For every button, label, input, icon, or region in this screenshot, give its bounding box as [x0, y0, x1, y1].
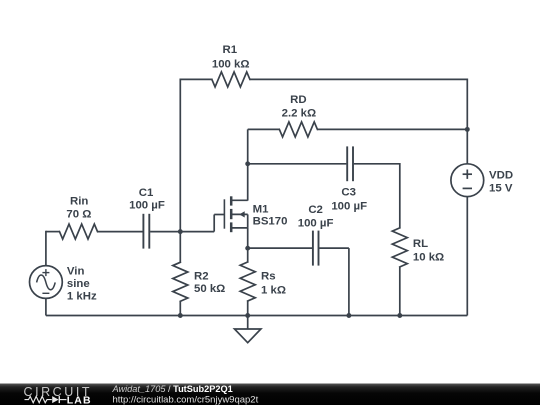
wire VDD rail upper (top rail to VDD source)	[466, 79, 468, 164]
svg-text:R2: R2	[194, 271, 209, 283]
node source/Rs/C2 junction	[245, 246, 250, 251]
svg-text:M1: M1	[253, 203, 269, 215]
node RD/VDD-rail junction	[465, 127, 470, 132]
transistor M1 body arrow	[239, 211, 245, 217]
wire Rin to C1	[98, 231, 143, 233]
node Rs/ground/bottom-rail junction	[245, 313, 250, 318]
wire RD horizontal left segment	[248, 128, 280, 130]
capacitor C1	[142, 214, 144, 249]
CircuitLab footer bar	[0, 384, 540, 405]
wire RD right to VDD rail	[317, 128, 467, 130]
transistor M1 gate bar	[223, 199, 225, 228]
wire RL bottom vertical	[399, 267, 401, 316]
voltage source Vin	[30, 266, 63, 299]
resistor R2	[173, 262, 188, 301]
node R2/bottom-rail junction	[178, 313, 183, 318]
svg-text:RD: RD	[290, 94, 306, 106]
ground	[247, 316, 249, 330]
svg-text:C3: C3	[341, 187, 356, 199]
transistor M1 drain lead	[232, 199, 248, 201]
resistor R1	[212, 72, 250, 87]
wire C2 branch down to bottom rail	[348, 248, 350, 315]
svg-text:R1: R1	[223, 44, 238, 56]
svg-text:2.2 kΩ: 2.2 kΩ	[282, 108, 316, 120]
wire C2 branch left segment	[248, 247, 312, 249]
node RL/bottom-rail junction	[397, 313, 402, 318]
svg-text:BS170: BS170	[253, 216, 288, 228]
node gate/C1/R2 junction	[178, 229, 183, 234]
svg-text:Awidat_1705 / TutSub2P2Q1: Awidat_1705 / TutSub2P2Q1	[112, 384, 233, 394]
svg-text:RL: RL	[413, 238, 428, 250]
svg-text:50 kΩ: 50 kΩ	[194, 283, 225, 295]
wire left rail upper (input to Vin source)	[45, 231, 47, 266]
wire input left segment (Vin to Rin)	[46, 231, 60, 233]
resistor Rin	[60, 224, 98, 239]
wire Rs top vertical	[247, 248, 249, 262]
wire R2 top vertical	[179, 232, 181, 263]
wire gate node to jog	[180, 231, 214, 233]
svg-text:100 µF: 100 µF	[331, 200, 367, 212]
wire C2 branch right segment	[319, 247, 349, 249]
capacitor C3	[346, 146, 348, 181]
capacitor C2	[312, 231, 314, 266]
wire gate jog vertical	[213, 215, 215, 232]
svg-text:10 kΩ: 10 kΩ	[413, 251, 444, 263]
resistor RL	[392, 228, 407, 267]
svg-text:1 kHz: 1 kHz	[67, 290, 97, 302]
wire source to source node	[247, 228, 249, 248]
transistor M1 channel bar	[230, 196, 233, 205]
svg-text:15 V: 15 V	[489, 183, 513, 195]
svg-text:http://circuitlab.com/cr5njyw9: http://circuitlab.com/cr5njyw9qap2t	[113, 395, 259, 405]
wire R1 right to VDD rail	[250, 78, 467, 80]
wire VDD rail lower (VDD source to bottom rail)	[466, 197, 468, 316]
resistor Rs	[240, 262, 255, 301]
transistor M1 body-source tie	[247, 214, 249, 228]
svg-text:LAB: LAB	[67, 394, 92, 405]
CircuitLab logo zigzag-diode icon	[25, 396, 52, 402]
svg-text:70 Ω: 70 Ω	[66, 208, 91, 220]
wire RL top vertical	[399, 163, 401, 228]
wire Rs bottom vertical	[247, 301, 249, 316]
transistor M1 body lead	[232, 213, 248, 215]
svg-text:100 kΩ: 100 kΩ	[212, 59, 250, 71]
svg-text:C1: C1	[139, 187, 154, 199]
node C2-branch/bottom-rail junction	[346, 313, 351, 318]
svg-text:Rs: Rs	[261, 271, 276, 283]
svg-text:100 µF: 100 µF	[129, 199, 165, 211]
voltage source VDD	[451, 164, 484, 197]
wire bottom rail	[46, 315, 467, 317]
svg-text:1 kΩ: 1 kΩ	[261, 284, 286, 296]
svg-text:C2: C2	[308, 204, 323, 216]
svg-text:100 µF: 100 µF	[298, 218, 334, 230]
resistor RD	[279, 122, 317, 137]
wire C3 branch left segment	[248, 163, 347, 165]
svg-text:sine: sine	[67, 278, 90, 290]
wire top rail (gate node to VDD rail, R1 branch)	[180, 78, 212, 80]
wire gate jog to gate pin	[214, 214, 224, 216]
svg-text:Vin: Vin	[67, 265, 85, 277]
wire R2 bottom vertical	[179, 301, 181, 315]
wire RD left corner down to drain	[247, 129, 249, 200]
wire left leg of R1 branch down to gate node	[179, 79, 181, 232]
wire C3 branch right segment	[354, 163, 400, 165]
wire left rail lower (Vin source to bottom rail)	[45, 298, 47, 315]
svg-text:VDD: VDD	[489, 169, 513, 181]
wire C1 to gate node	[150, 231, 180, 233]
svg-text:Rin: Rin	[70, 196, 88, 208]
node drain/C3 junction	[245, 161, 250, 166]
transistor M1 source lead	[232, 227, 248, 229]
